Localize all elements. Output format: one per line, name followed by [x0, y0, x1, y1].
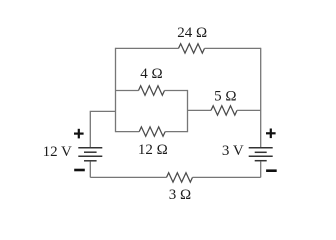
resistor 4ohm zigzag [139, 86, 165, 95]
battery 3V plates [249, 148, 273, 161]
svg-text:12 Ω: 12 Ω [138, 142, 168, 158]
wire 12ohm branch right [165, 131, 187, 133]
wire right box vertical [187, 90, 189, 132]
wire right vertical [260, 48, 262, 147]
svg-text:5 Ω: 5 Ω [214, 88, 236, 104]
resistor 5ohm zigzag [211, 106, 237, 115]
plus sign 12V [74, 129, 84, 139]
wire battery12V top lead [90, 111, 115, 147]
wire battery12V bottom lead [89, 161, 91, 177]
wire battery3V bottom lead [260, 161, 262, 177]
svg-text:12 V: 12 V [43, 144, 72, 160]
resistor 12ohm zigzag [139, 127, 165, 136]
resistor 3ohm zigzag [167, 173, 193, 182]
wire 5ohm left [188, 109, 212, 111]
wire bottom-left segment [90, 176, 166, 178]
wire 4ohm branch left [116, 90, 139, 92]
svg-text:3 Ω: 3 Ω [169, 187, 191, 203]
wire bottom-right segment [193, 176, 261, 178]
svg-text:4 Ω: 4 Ω [140, 66, 162, 82]
wire 12ohm branch left [116, 131, 140, 133]
wire 4ohm branch right [165, 90, 188, 92]
svg-text:24 Ω: 24 Ω [177, 25, 207, 41]
resistor 24ohm zigzag [179, 44, 205, 53]
wire 5ohm right [237, 109, 261, 111]
wire top-right segment [205, 47, 261, 49]
minus sign 12V [74, 169, 85, 172]
wire left box vertical [115, 48, 117, 132]
plus sign 3V [266, 129, 276, 139]
minus sign 3V [266, 169, 277, 172]
svg-text:3 V: 3 V [222, 143, 244, 159]
wire top-left segment [116, 47, 179, 49]
battery 12V plates [78, 148, 102, 161]
